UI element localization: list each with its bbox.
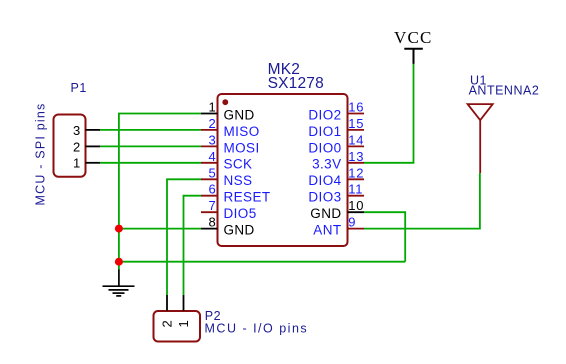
svg-text:DIO0: DIO0 (308, 140, 341, 155)
svg-text:ANT: ANT (313, 223, 341, 238)
svg-text:VCC: VCC (394, 28, 433, 47)
wire pin10 GND down (364, 212, 405, 262)
pin 2 MISO (201, 116, 260, 139)
svg-text:1: 1 (176, 319, 191, 327)
pin 6 RESET (201, 182, 271, 205)
wire pin9 ANT to antenna (364, 173, 480, 229)
ground symbol (103, 270, 135, 296)
svg-text:DIO5: DIO5 (224, 206, 257, 221)
svg-text:P1: P1 (71, 81, 87, 95)
P2 pin 2 (160, 295, 175, 328)
svg-text:3.3V: 3.3V (312, 157, 341, 172)
svg-text:DIO3: DIO3 (308, 190, 341, 205)
svg-text:DIO4: DIO4 (308, 173, 341, 188)
pin 10 GND (310, 198, 364, 221)
svg-text:MCU - I/O pins: MCU - I/O pins (205, 322, 309, 336)
svg-text:4: 4 (208, 149, 216, 164)
svg-text:DIO2: DIO2 (308, 107, 341, 122)
svg-text:MOSI: MOSI (224, 140, 260, 155)
pin 11 DIO3 (308, 182, 364, 205)
pin 12 DIO4 (308, 165, 364, 188)
pin 8 GND (201, 215, 255, 238)
svg-text:13: 13 (348, 149, 364, 164)
pin 5 NSS (201, 165, 252, 188)
svg-text:MISO: MISO (224, 124, 260, 139)
svg-text:3: 3 (73, 123, 81, 138)
wire RESET to P2-1 (184, 196, 202, 295)
antenna U1 (468, 104, 493, 173)
svg-text:1: 1 (208, 100, 216, 115)
svg-text:ANTENNA2: ANTENNA2 (469, 84, 540, 98)
pin 16 DIO2 (308, 100, 364, 123)
svg-text:GND: GND (224, 107, 255, 122)
svg-text:NSS: NSS (224, 173, 253, 188)
svg-text:9: 9 (348, 215, 356, 230)
svg-text:16: 16 (348, 100, 364, 115)
IC MK2 SX1278 body (218, 94, 348, 246)
svg-text:DIO1: DIO1 (308, 124, 341, 139)
svg-text:14: 14 (348, 132, 364, 147)
VCC symbol (394, 28, 433, 64)
svg-text:MCU - SPI pins: MCU - SPI pins (34, 103, 48, 206)
svg-text:GND: GND (310, 206, 341, 221)
wire pin8 GND (119, 228, 201, 230)
P1 pin 2 (73, 139, 100, 154)
pin 7 DIO5 (201, 198, 257, 221)
wire MISO (P1-3 to pin2) (100, 129, 201, 131)
svg-text:SCK: SCK (224, 157, 253, 172)
wire SCK (P1-1 to pin4) (100, 162, 201, 164)
connector P2 body (154, 311, 201, 342)
svg-text:6: 6 (208, 182, 216, 197)
P2 pin 1 (176, 295, 191, 328)
svg-text:11: 11 (348, 182, 363, 197)
svg-text:SX1278: SX1278 (268, 75, 324, 92)
svg-text:2: 2 (160, 319, 175, 327)
wire NSS to P2-2 (167, 179, 201, 295)
svg-text:2: 2 (73, 139, 81, 154)
pin 1 GND (201, 100, 255, 123)
wire ground row (119, 261, 405, 263)
svg-text:3: 3 (208, 132, 216, 147)
wire ground stub below junction (118, 262, 120, 270)
svg-text:1: 1 (73, 156, 81, 171)
junction dot at pin8/GND bus (115, 225, 123, 233)
connector P1 body (54, 115, 86, 177)
svg-text:RESET: RESET (224, 190, 271, 205)
svg-text:GND: GND (224, 223, 255, 238)
svg-text:10: 10 (348, 198, 364, 213)
wire pin1 GND to ground bus (119, 114, 201, 262)
junction dot at ground row (115, 258, 123, 266)
svg-text:5: 5 (208, 165, 216, 180)
svg-text:15: 15 (348, 116, 364, 131)
svg-text:7: 7 (208, 198, 216, 213)
P1 pin 1 (73, 156, 100, 171)
pin 3 MOSI (201, 132, 260, 155)
IC pin-1 marker dot (222, 99, 228, 105)
svg-text:2: 2 (208, 116, 216, 131)
pin 9 ANT (313, 215, 364, 238)
pin 14 DIO0 (308, 132, 364, 155)
pin 13 3.3V (312, 149, 364, 172)
wire MOSI (P1-2 to pin3) (100, 145, 201, 147)
pin 15 DIO1 (308, 116, 364, 139)
svg-text:8: 8 (208, 215, 216, 230)
wire pin13 to VCC (364, 64, 414, 163)
P1 pin 3 (73, 123, 100, 138)
pin 4 SCK (201, 149, 252, 172)
svg-text:12: 12 (348, 165, 364, 180)
